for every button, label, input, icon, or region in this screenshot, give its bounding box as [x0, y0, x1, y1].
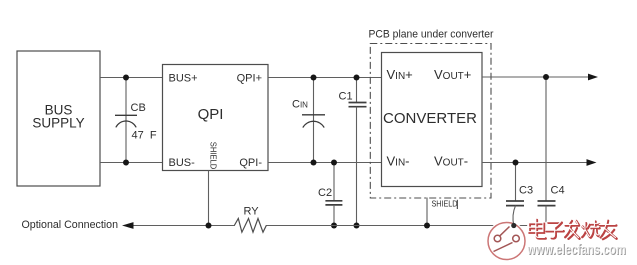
QPI box U-QPI — [163, 65, 269, 171]
capacitor CB — [115, 78, 157, 163]
svg-text:QPI+: QPI+ — [237, 73, 262, 85]
wire VOUT+ output — [482, 76, 589, 78]
wire C3 to shield (over logo) — [513, 206, 516, 226]
wire QPI shield to bottom wire — [208, 171, 210, 227]
svg-text:C1: C1 — [339, 91, 353, 103]
node: C1 top — [354, 75, 360, 81]
svg-text:BUS+: BUS+ — [169, 73, 198, 85]
node: C2 top — [331, 160, 337, 166]
converter box U-CONV — [382, 53, 483, 187]
node: PCB plane junction — [424, 223, 430, 229]
svg-text:BUS-: BUS- — [169, 157, 196, 169]
node: CIN bottom — [311, 160, 317, 166]
svg-text:RY: RY — [244, 206, 260, 218]
svg-text:C4: C4 — [551, 185, 565, 197]
wire QPI+ to VIN+ — [268, 77, 382, 79]
capacitor C3 (VOUT- to shield) — [506, 163, 533, 206]
svg-text:C3: C3 — [519, 185, 533, 197]
node: C4 top on VOUT+ — [543, 74, 549, 80]
svg-text:CIN: CIN — [292, 99, 308, 111]
arrow VOUT- — [587, 159, 597, 166]
capacitor C1 — [339, 78, 367, 227]
node: C1 bottom — [354, 223, 360, 229]
svg-text:QPI-: QPI- — [239, 157, 262, 169]
svg-text:QPI: QPI — [198, 106, 224, 123]
svg-text:PCB plane under converter: PCB plane under converter — [369, 29, 494, 41]
capacitor C2 — [318, 163, 342, 227]
capacitor C4 (VOUT+ to shield) — [538, 77, 565, 226]
bottom shield wire — [134, 225, 547, 227]
svg-text:SUPPLY: SUPPLY — [32, 115, 84, 130]
wire BUS- (bus supply to QPI) — [100, 162, 163, 164]
arrow VOUT+ — [588, 74, 598, 81]
svg-text:47 F: 47 F — [132, 130, 157, 142]
svg-text:Optional Connection: Optional Connection — [22, 219, 119, 231]
svg-text:www.elecfans.com: www.elecfans.com — [526, 241, 625, 258]
dashed box: PCB plane under converter — [369, 29, 494, 199]
node: BUS+ / CB junction — [123, 75, 129, 81]
capacitor CIN — [292, 78, 325, 163]
svg-text:SHIELD: SHIELD — [209, 142, 218, 170]
svg-text:CONVERTER: CONVERTER — [383, 110, 477, 127]
watermark: elecfans logo circle — [486, 221, 527, 262]
svg-text:SHIELD: SHIELD — [432, 200, 458, 209]
node: C2 bottom — [331, 223, 337, 229]
svg-text:C2: C2 — [318, 187, 332, 199]
wire VOUT- output — [482, 162, 588, 164]
bus supply box U-BUS — [17, 51, 100, 186]
wire QPI- to VIN- — [268, 162, 382, 164]
node: CIN top — [311, 75, 317, 81]
svg-text:CB: CB — [131, 102, 146, 114]
wire BUS+ (bus supply to QPI) — [100, 77, 163, 79]
node: C3 top on VOUT- — [513, 160, 519, 166]
arrow optional connection (left) — [122, 222, 134, 229]
node: BUS- / CB junction — [123, 160, 129, 166]
wire PCB plane to bottom wire — [426, 198, 428, 227]
node: C3 bottom junction — [511, 223, 516, 228]
resistor RY — [234, 206, 266, 234]
watermark: chinese characters (drawn paths) — [530, 220, 617, 239]
node: shield junction — [206, 223, 212, 229]
